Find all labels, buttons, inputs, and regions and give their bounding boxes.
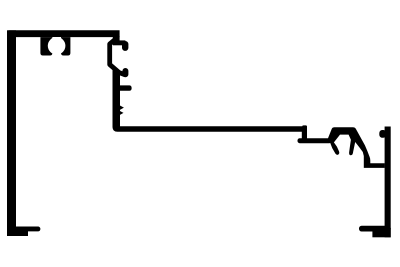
screw boss prong left [40, 37, 52, 55]
bottom-left foot arm [14, 227, 40, 232]
euro-groove top arm down hook [122, 44, 128, 48]
bottom-left foot pad [7, 228, 28, 236]
serration tooth lower [120, 111, 124, 115]
mid wall and upper web line [113, 70, 308, 132]
screw hole (white) [48, 37, 66, 55]
glazing bead clip (hat, fangs, shelf) [328, 127, 385, 168]
lower web line [298, 138, 332, 143]
web end lip [302, 125, 307, 128]
euro-groove bottom arm up hook [122, 71, 128, 74]
right bar top lug [379, 130, 386, 138]
web step connector [302, 130, 307, 141]
bottom-right foot pad [372, 228, 390, 237]
left wall bar [7, 30, 16, 236]
euro-groove neck [113, 36, 120, 42]
small flange on mid wall [117, 85, 132, 90]
right wall bar [385, 127, 391, 238]
euro-groove top arm [113, 40, 125, 45]
top flange bar [7, 30, 120, 37]
bottom-right foot arm [359, 226, 391, 232]
serration tooth upper [120, 105, 124, 110]
screw boss prong right [61, 37, 70, 55]
euro-groove back wall and bottom arm [110, 39, 126, 75]
